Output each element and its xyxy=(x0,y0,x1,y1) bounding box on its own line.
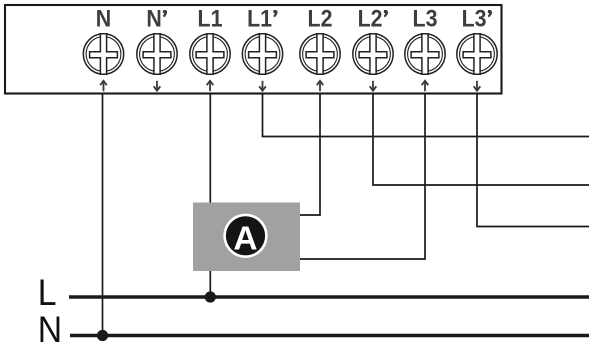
svg-text:L1: L1 xyxy=(198,4,223,31)
svg-text:N: N xyxy=(38,308,62,348)
svg-text:L3: L3 xyxy=(413,4,438,31)
svg-text:N: N xyxy=(96,4,111,31)
svg-text:L3’: L3’ xyxy=(462,4,493,31)
svg-text:L: L xyxy=(38,271,57,313)
svg-text:A: A xyxy=(233,221,257,258)
svg-text:L2’: L2’ xyxy=(358,4,389,31)
svg-text:L1’: L1’ xyxy=(247,4,278,31)
svg-text:L2: L2 xyxy=(308,4,333,31)
svg-text:N’: N’ xyxy=(146,4,167,31)
